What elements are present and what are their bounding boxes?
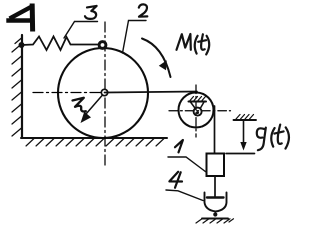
ground bbox=[21, 137, 167, 139]
pulley centerline horizontal bbox=[169, 110, 231, 112]
label q(t) bbox=[257, 125, 289, 151]
arrow q(t) bbox=[243, 121, 245, 145]
leader 1 bbox=[168, 157, 206, 172]
disk 2 bbox=[58, 48, 148, 138]
leader 3 bbox=[64, 22, 98, 39]
ground hatching bbox=[26, 139, 164, 147]
rod bbox=[214, 176, 216, 198]
pulley support bar bbox=[189, 101, 207, 103]
radius label z bbox=[73, 98, 86, 112]
disk center pin bbox=[101, 89, 107, 95]
disk centerline horizontal bbox=[33, 92, 100, 94]
label 1 bbox=[175, 140, 183, 152]
disk centerline vertical bbox=[104, 22, 106, 166]
damper foot bbox=[213, 212, 217, 216]
datum q(t) bar bbox=[234, 119, 257, 121]
label M(t) bbox=[177, 34, 210, 54]
label 2 bbox=[139, 4, 148, 16]
label 4 bbox=[169, 172, 182, 188]
wall hatching bbox=[12, 38, 22, 136]
pulley support legs bbox=[191, 102, 196, 109]
mass 1 bbox=[207, 154, 225, 177]
spring anchor dot bbox=[19, 42, 25, 48]
datum bottom line bbox=[226, 153, 255, 155]
disk top pin bbox=[99, 42, 106, 49]
torque M(t) arrow bbox=[142, 39, 171, 78]
radius arrow bbox=[86, 95, 103, 114]
pulley centerline vertical bbox=[195, 85, 197, 137]
damper 4 cup bbox=[205, 193, 227, 212]
damper piston bbox=[207, 196, 224, 198]
datum hatching bbox=[236, 115, 254, 120]
leader 2 bbox=[123, 21, 147, 54]
wall bbox=[21, 35, 23, 138]
pulley pin bbox=[194, 108, 202, 116]
pulley support hatching bbox=[190, 97, 206, 101]
rope vertical bbox=[214, 106, 216, 154]
rope horizontal bbox=[105, 92, 198, 93]
leader 4 bbox=[166, 190, 203, 201]
pulley bbox=[179, 93, 214, 128]
spring 3 bbox=[22, 37, 100, 51]
damper ground hatching bbox=[196, 219, 234, 223]
damper ground bbox=[202, 218, 228, 220]
figure number 4 bbox=[9, 6, 33, 29]
label 3 bbox=[85, 6, 97, 19]
